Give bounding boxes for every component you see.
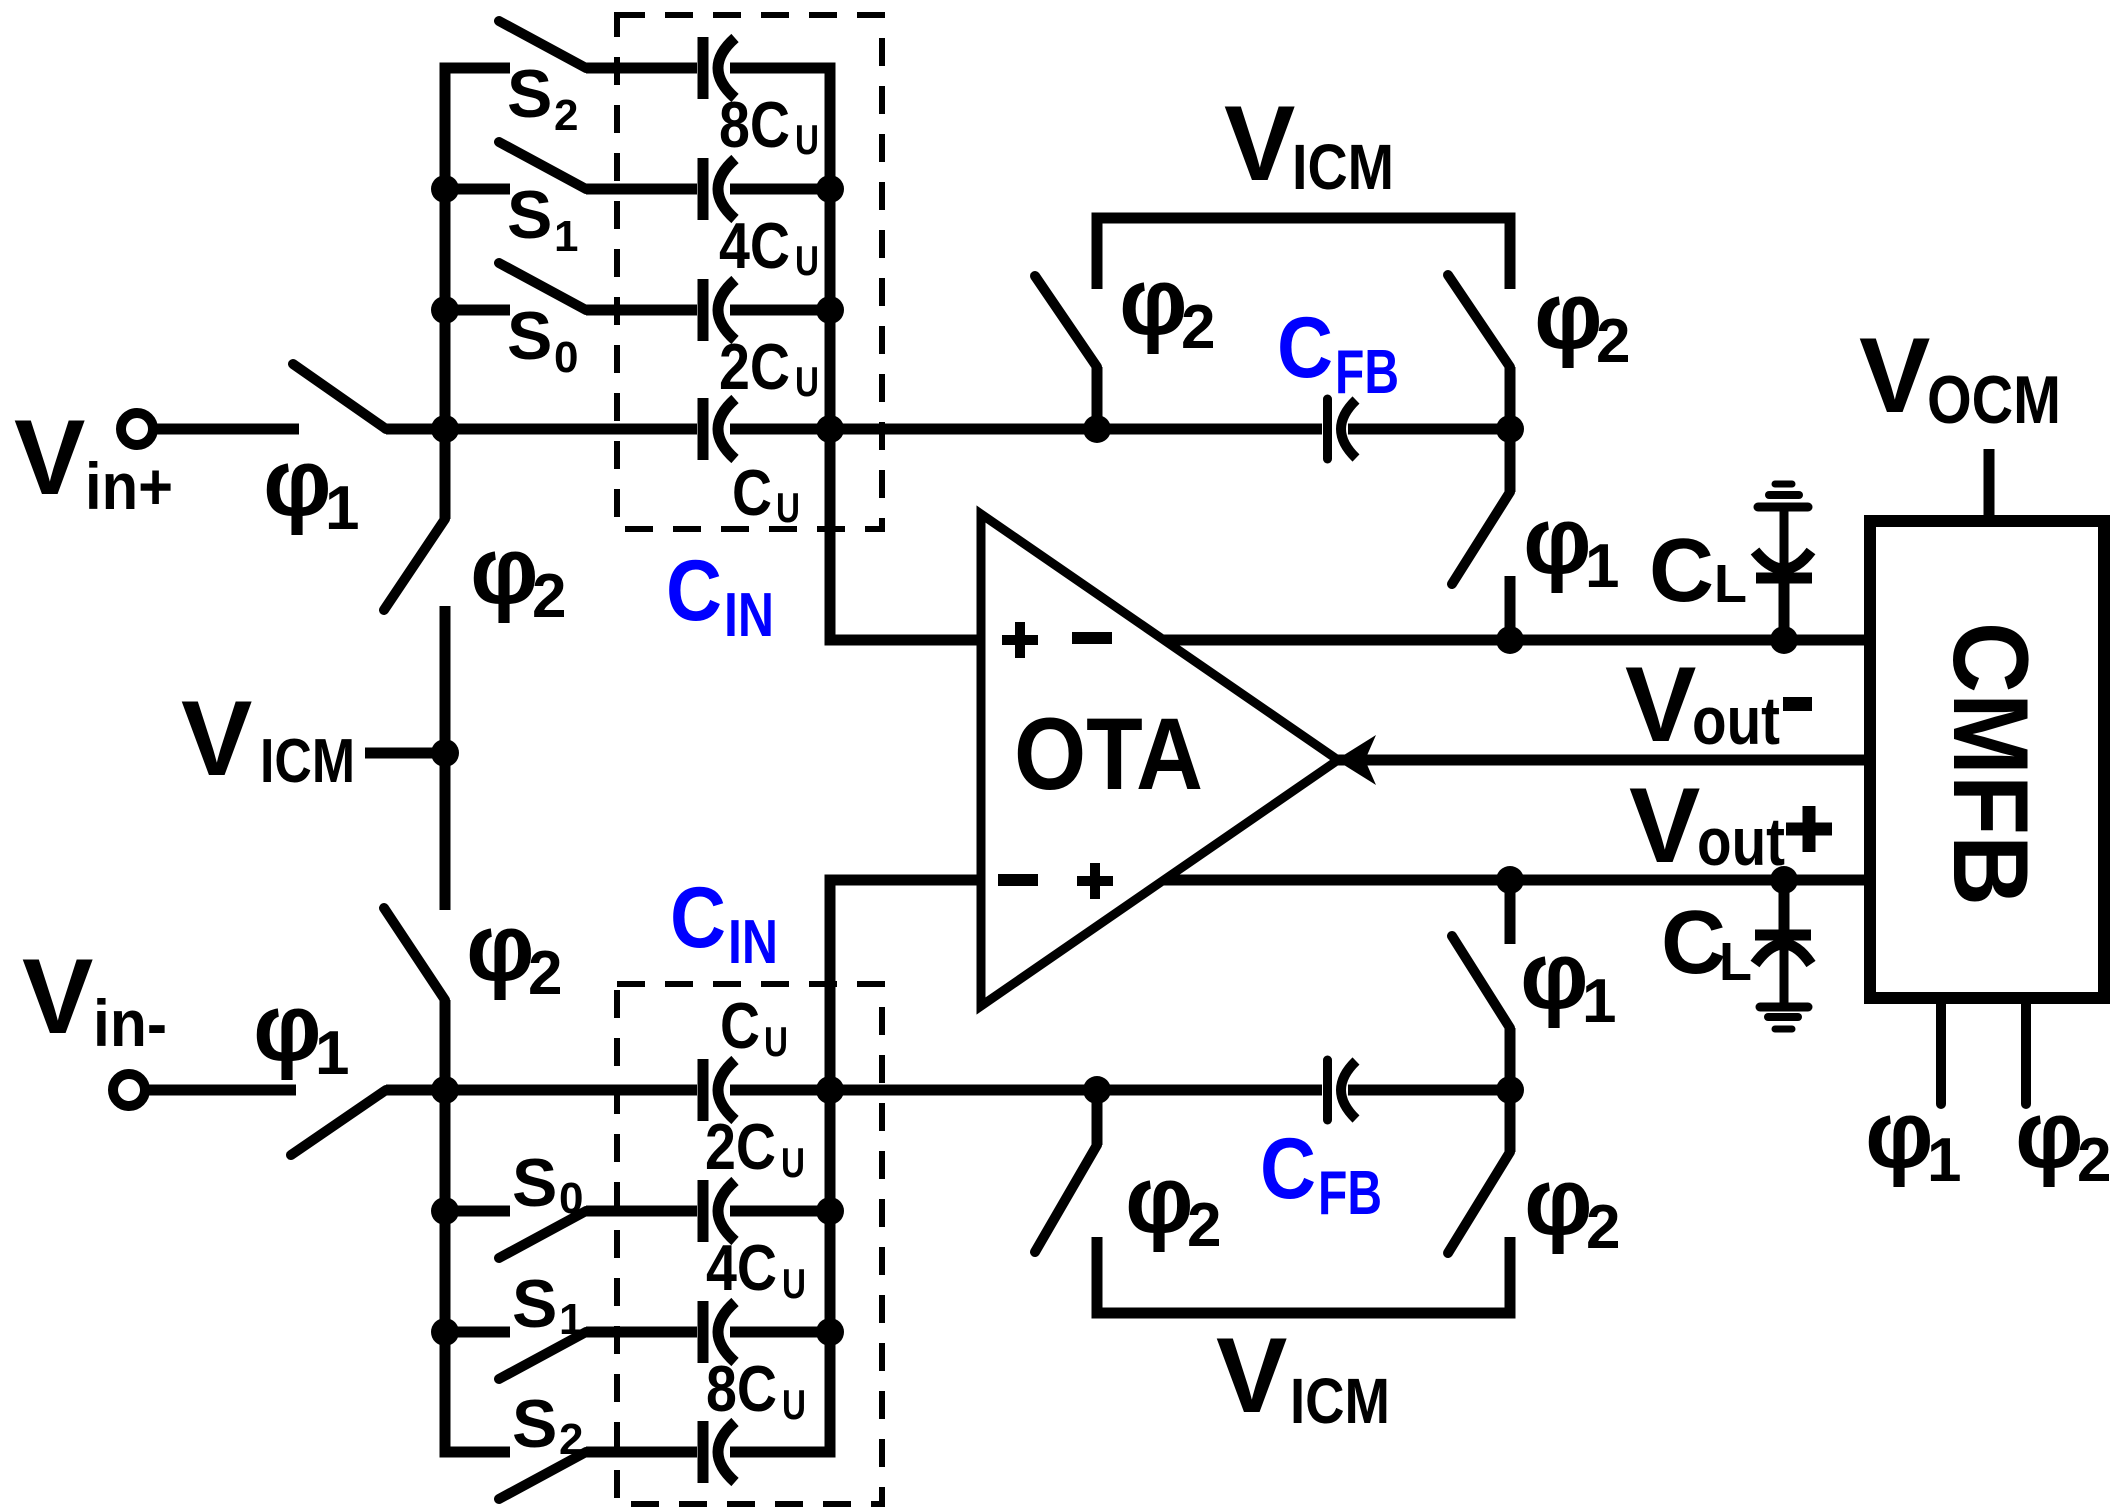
svg-text:S: S [507,298,552,374]
svg-text:0: 0 [559,1174,583,1223]
svg-text:S: S [507,56,552,132]
svg-text:V: V [14,397,85,517]
svg-text:L: L [1719,932,1752,992]
svg-text:FB: FB [1318,1159,1382,1228]
svg-text:V: V [1859,315,1930,435]
svg-text:ICM: ICM [1292,131,1394,203]
svg-text:φ: φ [470,517,539,624]
svg-text:C: C [720,989,760,1062]
svg-text:OCM: OCM [1927,362,2061,438]
svg-text:U: U [795,358,819,405]
svg-text:S: S [512,1145,557,1221]
svg-text:2: 2 [554,91,578,140]
svg-text:U: U [795,116,819,163]
svg-text:ICM: ICM [1290,1365,1390,1437]
svg-text:IN: IN [724,581,774,650]
svg-text:in-: in- [93,986,167,1060]
svg-text:0: 0 [554,333,578,382]
svg-text:1: 1 [315,1019,349,1088]
svg-text:φ: φ [1524,1148,1593,1255]
svg-text:1: 1 [1585,532,1619,601]
svg-text:S: S [512,1386,557,1462]
svg-text:U: U [795,237,819,284]
svg-text:φ: φ [466,894,535,1001]
svg-text:C: C [666,543,722,639]
svg-text:OTA: OTA [1014,697,1203,811]
svg-text:2: 2 [1181,293,1215,362]
svg-text:1: 1 [1582,967,1616,1036]
svg-text:FB: FB [1335,338,1399,407]
svg-text:V: V [1216,1315,1287,1435]
svg-text:C: C [1649,521,1714,621]
svg-text:V: V [1629,765,1700,885]
svg-text:S: S [512,1266,557,1342]
svg-text:L: L [1714,554,1747,614]
svg-text:CMFB: CMFB [1931,622,2051,906]
svg-text:out: out [1692,683,1780,759]
svg-text:1: 1 [559,1295,583,1344]
svg-text:φ: φ [2015,1081,2084,1188]
svg-text:IN: IN [728,908,778,977]
svg-text:φ: φ [1119,248,1188,355]
svg-text:8C: 8C [719,88,790,161]
svg-text:2C: 2C [719,330,790,403]
svg-text:2: 2 [1187,1191,1221,1260]
svg-text:8C: 8C [706,1352,777,1425]
svg-text:2: 2 [532,562,566,631]
svg-text:U: U [782,1260,806,1307]
svg-text:φ: φ [1865,1081,1934,1188]
svg-text:V: V [1625,644,1696,764]
svg-text:C: C [1260,1121,1316,1217]
svg-text:U: U [764,1018,788,1065]
svg-text:4C: 4C [706,1231,777,1304]
svg-text:S: S [507,177,552,253]
svg-text:U: U [776,484,800,531]
svg-text:out: out [1697,804,1785,880]
svg-text:in+: in+ [85,449,173,523]
svg-text:2: 2 [1586,1193,1620,1262]
svg-text:φ: φ [1520,922,1589,1029]
svg-text:C: C [1661,893,1726,993]
svg-text:1: 1 [1927,1126,1961,1195]
svg-text:1: 1 [554,212,578,261]
svg-text:φ: φ [253,974,322,1081]
svg-text:U: U [781,1139,805,1186]
svg-text:φ: φ [1534,262,1603,369]
svg-text:C: C [1277,300,1333,396]
svg-text:V: V [181,678,252,798]
svg-text:2: 2 [2077,1126,2111,1195]
svg-text:2: 2 [559,1415,583,1464]
svg-text:C: C [670,870,726,966]
svg-text:U: U [782,1381,806,1428]
svg-text:C: C [732,456,772,529]
svg-text:4C: 4C [719,209,790,282]
svg-text:φ: φ [1523,487,1592,594]
svg-text:φ: φ [1125,1146,1194,1253]
svg-text:V: V [22,936,93,1056]
svg-text:V: V [1224,83,1295,203]
svg-text:2: 2 [1596,307,1630,376]
svg-text:2C: 2C [705,1110,776,1183]
svg-text:ICM: ICM [260,727,355,796]
svg-text:1: 1 [325,474,359,543]
svg-text:2: 2 [528,939,562,1008]
svg-text:φ: φ [263,429,332,536]
